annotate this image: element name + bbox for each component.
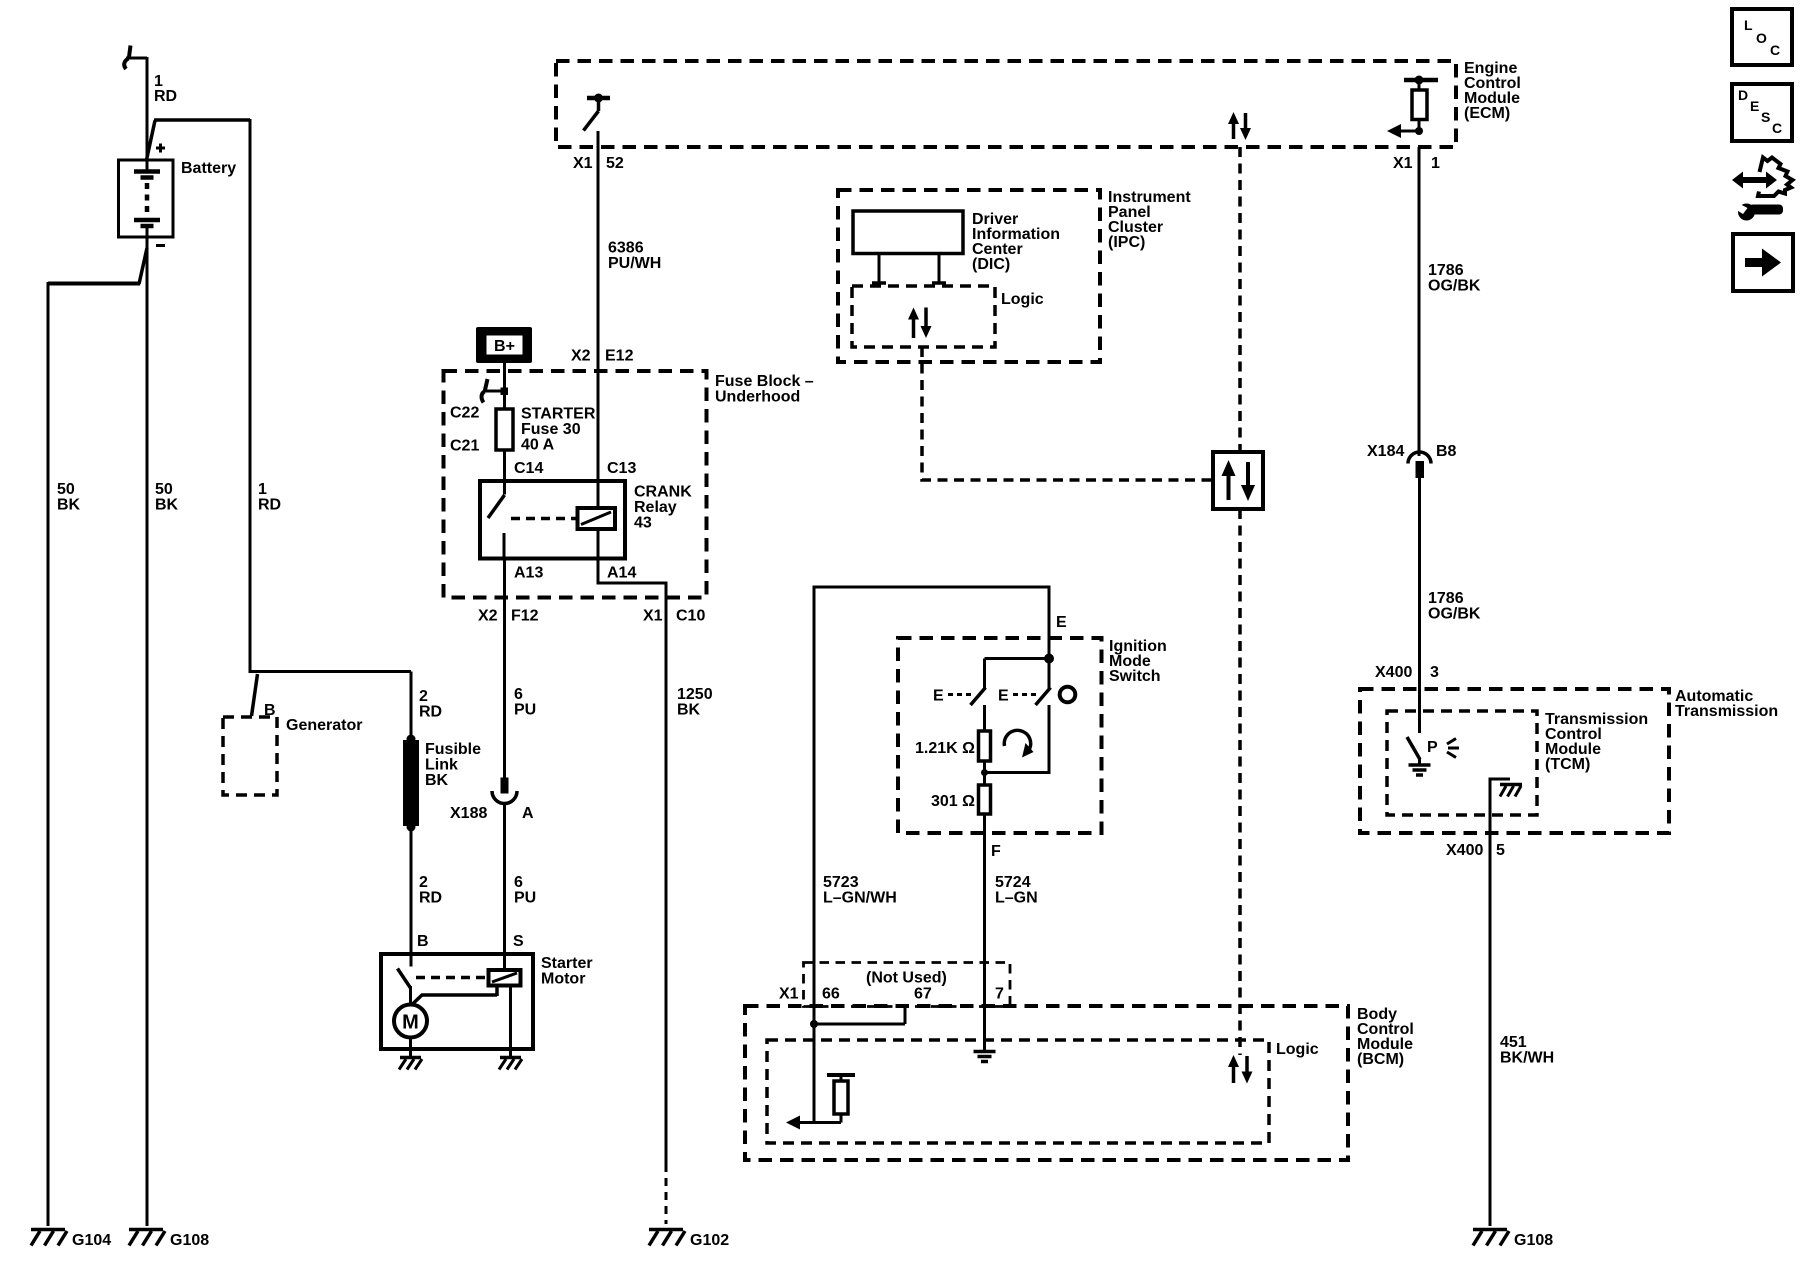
svg-text:L–GN: L–GN <box>995 890 1038 907</box>
svg-text:E: E <box>998 688 1009 705</box>
svg-text:Relay: Relay <box>634 499 677 516</box>
wire 5723 to BCM 66 <box>814 586 897 1025</box>
svg-text:F: F <box>991 843 1001 860</box>
wire E junction branch <box>985 659 1050 689</box>
svg-text:66: 66 <box>822 986 840 1003</box>
starter motor box <box>381 954 593 1049</box>
starter solenoid actuation dashed link <box>416 976 486 980</box>
svg-text:BK: BK <box>57 497 81 514</box>
svg-text:2: 2 <box>419 688 428 705</box>
svg-text:Fuse Block –: Fuse Block – <box>715 373 814 390</box>
svg-text:RD: RD <box>258 497 281 514</box>
wire horizontal to fusible link branch <box>250 672 411 717</box>
svg-text:5723: 5723 <box>823 874 859 891</box>
wire 5724 F to BCM 7 <box>985 814 1038 1050</box>
ground G108 left <box>129 1230 209 1250</box>
svg-text:5724: 5724 <box>995 874 1031 891</box>
fuse block underhood box <box>444 371 814 598</box>
starter solenoid coil <box>489 970 521 986</box>
ground starter motor <box>399 1058 422 1070</box>
connector X188 <box>450 778 534 823</box>
wire X1 52 to relay coil (6386 PU/WH) <box>571 131 661 508</box>
svg-text:C21: C21 <box>450 438 479 455</box>
node junction pin 66 <box>810 1020 818 1028</box>
svg-text:A14: A14 <box>607 565 636 582</box>
svg-text:P: P <box>1427 739 1438 756</box>
svg-text:D: D <box>1738 87 1748 103</box>
ignition mode switch box <box>898 638 1167 833</box>
starter motor M <box>394 1005 427 1038</box>
svg-text:X2: X2 <box>571 348 591 365</box>
svg-text:E12: E12 <box>605 348 634 365</box>
svg-text:2: 2 <box>419 874 428 891</box>
BCM logic data arrows <box>1228 1055 1253 1084</box>
crank relay switch blade <box>488 495 505 559</box>
crank relay coil <box>578 508 616 529</box>
crank relay box <box>480 481 692 559</box>
svg-text:C13: C13 <box>607 460 636 477</box>
svg-text:X184: X184 <box>1367 443 1404 460</box>
splice clip symbol top-left <box>124 46 147 70</box>
fusible link <box>403 735 481 832</box>
svg-text:451: 451 <box>1500 1034 1527 1051</box>
svg-text:RD: RD <box>419 890 442 907</box>
svg-text:1250: 1250 <box>677 686 713 703</box>
wire solenoid coil to ground <box>509 986 512 1057</box>
wire pin 66 into logic <box>813 1024 816 1123</box>
svg-text:X400: X400 <box>1375 664 1412 681</box>
crank relay actuation dashed link <box>511 517 577 521</box>
ECM box <box>556 60 1521 147</box>
ground G108 right <box>1473 1230 1553 1250</box>
svg-text:Transmission: Transmission <box>1675 703 1778 720</box>
wire A13 to starter S (6 PU) <box>478 559 539 779</box>
svg-text:X2: X2 <box>478 608 498 625</box>
svg-text:F12: F12 <box>511 608 539 625</box>
dashed logic wire DIC to gateway <box>922 347 1213 480</box>
svg-text:B8: B8 <box>1436 443 1457 460</box>
svg-text:Underhood: Underhood <box>715 389 800 406</box>
wire solenoid coil to motor feed <box>411 986 497 1006</box>
svg-text:Generator: Generator <box>286 717 362 734</box>
wire 2 RD lower to starter B <box>411 827 442 967</box>
IPC logic data arrows <box>908 308 932 339</box>
svg-text:CRANK: CRANK <box>634 484 692 501</box>
svg-text:S: S <box>513 933 524 950</box>
wire dashed tail to G102 <box>665 1164 668 1224</box>
ground TCM case <box>1500 785 1522 797</box>
wire 1786 OG/BK lower <box>1375 478 1481 733</box>
svg-text:BK: BK <box>677 702 701 719</box>
svg-text:G102: G102 <box>690 1232 729 1249</box>
ECM driver switch at X1 52 <box>573 94 624 173</box>
svg-text:1.21K Ω: 1.21K Ω <box>915 740 975 757</box>
svg-text:E: E <box>1750 98 1759 114</box>
svg-text:G108: G108 <box>170 1232 209 1249</box>
diagnostic icon <box>1732 158 1793 221</box>
svg-text:C10: C10 <box>676 608 705 625</box>
DIC display <box>853 211 1060 273</box>
wire 1 RD battery positive top <box>147 57 177 171</box>
svg-text:(ECM): (ECM) <box>1464 105 1510 122</box>
wire B+ to fuse C22 <box>503 363 506 409</box>
svg-text:43: 43 <box>634 515 652 532</box>
B+ terminal <box>476 327 532 363</box>
svg-text:52: 52 <box>606 155 624 172</box>
DIC legs <box>872 254 946 284</box>
svg-text:O: O <box>1756 30 1767 46</box>
svg-text:5: 5 <box>1496 842 1505 859</box>
svg-text:Battery: Battery <box>181 160 236 177</box>
svg-text:Motor: Motor <box>541 971 585 988</box>
svg-text:3: 3 <box>1430 664 1439 681</box>
wire switch2 to resistor junction <box>981 705 1049 785</box>
wire battery plus to 1 RD riser <box>147 120 251 160</box>
ignition wire E riser <box>814 586 1067 659</box>
dashed logic wire gateway to BCM <box>1238 509 1242 1055</box>
svg-text:L: L <box>1744 17 1753 33</box>
svg-text:X188: X188 <box>450 805 487 822</box>
svg-text:PU/WH: PU/WH <box>608 255 661 272</box>
svg-text:STARTER: STARTER <box>521 406 596 423</box>
generator box <box>223 702 362 795</box>
svg-text:Fusible: Fusible <box>425 741 481 758</box>
svg-text:X1: X1 <box>1393 155 1413 172</box>
svg-text:Logic: Logic <box>1276 1041 1319 1058</box>
svg-text:E: E <box>933 688 944 705</box>
ground starter solenoid <box>499 1058 522 1070</box>
svg-text:E: E <box>1056 614 1067 631</box>
svg-text:L–GN/WH: L–GN/WH <box>823 890 897 907</box>
automatic transmission box <box>1360 688 1778 833</box>
wire 50 BK second (battery minus) <box>147 228 179 1226</box>
ECM output node arrow <box>1387 124 1440 172</box>
ground G104 <box>31 1230 111 1250</box>
svg-text:X1: X1 <box>643 608 663 625</box>
wire battery minus jog <box>48 248 147 284</box>
battery B <box>119 144 237 248</box>
svg-text:PU: PU <box>514 890 536 907</box>
wire motor to ground <box>409 1038 412 1057</box>
svg-text:Starter: Starter <box>541 955 593 972</box>
wire X188 to starter S <box>505 804 537 971</box>
svg-text:C: C <box>1770 42 1780 58</box>
BCM box <box>745 1006 1414 1160</box>
svg-text:40 A: 40 A <box>521 437 555 454</box>
svg-text:BK: BK <box>155 497 179 514</box>
svg-text:OG/BK: OG/BK <box>1428 606 1481 623</box>
svg-text:6386: 6386 <box>608 240 644 257</box>
connector X184 <box>1367 443 1457 478</box>
IPC logic box <box>852 286 1044 347</box>
svg-text:BK/WH: BK/WH <box>1500 1050 1554 1067</box>
svg-text:6: 6 <box>514 686 523 703</box>
DESC legend box <box>1732 84 1792 141</box>
svg-text:1786: 1786 <box>1428 262 1464 279</box>
BCM logic box <box>767 1040 1319 1143</box>
svg-text:50: 50 <box>155 481 173 498</box>
svg-text:S: S <box>1761 109 1770 125</box>
ground TCM park switch <box>1409 765 1431 775</box>
svg-text:Logic: Logic <box>1001 291 1044 308</box>
svg-text:G108: G108 <box>1514 1232 1553 1249</box>
svg-text:(TCM): (TCM) <box>1545 756 1590 773</box>
LOC legend box <box>1732 9 1792 65</box>
splice clip at C22 <box>482 379 508 403</box>
svg-text:301 Ω: 301 Ω <box>931 793 975 810</box>
svg-text:C22: C22 <box>450 405 479 422</box>
park lamp P <box>1427 739 1459 758</box>
BCM output arrow <box>786 1116 841 1130</box>
BCM pull-up resistor <box>827 1075 855 1123</box>
wire 451 BK/WH <box>1446 826 1554 1226</box>
svg-text:C14: C14 <box>514 460 543 477</box>
wire 50 BK left <box>48 282 81 1226</box>
GO legend box <box>1733 234 1793 291</box>
svg-text:OG/BK: OG/BK <box>1428 278 1481 295</box>
TCM park switch <box>1407 737 1420 764</box>
starter solenoid switch blade <box>398 969 411 1007</box>
svg-text:X1: X1 <box>573 155 593 172</box>
svg-text:(BCM): (BCM) <box>1357 1051 1404 1068</box>
node E junction <box>1044 654 1054 664</box>
svg-text:A: A <box>522 805 534 822</box>
svg-text:X400: X400 <box>1446 842 1483 859</box>
wire 1 RD riser to generator <box>250 119 281 673</box>
ignition switch 1 <box>933 688 986 706</box>
svg-text:X1: X1 <box>779 986 799 1003</box>
svg-text:PU: PU <box>514 702 536 719</box>
svg-text:67: 67 <box>914 986 932 1003</box>
svg-text:6: 6 <box>514 874 523 891</box>
ground G102 <box>649 1230 729 1250</box>
wire 2 RD upper <box>411 672 442 739</box>
svg-text:50: 50 <box>57 481 75 498</box>
ECM logic data arrows <box>1228 112 1251 140</box>
wire 1786 OG/BK upper <box>1419 147 1481 456</box>
svg-text:(IPC): (IPC) <box>1108 234 1145 251</box>
IPC box <box>838 189 1191 362</box>
svg-text:B+: B+ <box>494 338 515 355</box>
ground BCM pin 7 <box>974 1052 996 1062</box>
svg-text:Fuse 30: Fuse 30 <box>521 421 581 438</box>
svg-text:(Not Used): (Not Used) <box>866 970 947 987</box>
svg-text:A13: A13 <box>514 565 543 582</box>
svg-text:Link: Link <box>425 757 458 774</box>
fuse STARTER 40A <box>450 405 596 455</box>
svg-text:G104: G104 <box>72 1232 111 1249</box>
wire stub to pin 67 <box>814 1006 905 1024</box>
svg-text:(DIC): (DIC) <box>972 256 1010 273</box>
svg-text:B: B <box>417 933 429 950</box>
dashed logic wire ECM to gateway <box>1238 147 1242 452</box>
svg-text:1: 1 <box>1431 155 1440 172</box>
wire A14 to X1 C10 (1250 BK) <box>514 529 713 1164</box>
wire fuse to crank relay C14 <box>505 450 544 495</box>
svg-text:7: 7 <box>995 986 1004 1003</box>
ignition switch 2 <box>998 659 1075 706</box>
svg-text:M: M <box>402 1012 419 1034</box>
resistor 301 <box>931 785 991 814</box>
svg-text:RD: RD <box>154 88 177 105</box>
BCM X1 connector pin box <box>779 963 1010 1007</box>
svg-text:Switch: Switch <box>1109 668 1161 685</box>
svg-text:BK: BK <box>425 772 449 789</box>
TCM case ground wire <box>1490 779 1510 826</box>
ECM output driver resistor <box>1404 76 1438 132</box>
svg-text:C: C <box>1772 120 1782 136</box>
svg-text:1: 1 <box>258 481 267 498</box>
svg-text:1786: 1786 <box>1428 590 1464 607</box>
svg-text:B: B <box>264 702 276 719</box>
gateway data box <box>1213 452 1263 509</box>
TCM box <box>1387 711 1648 815</box>
resistor 1.21K <box>915 705 991 761</box>
rotation arrow <box>1004 730 1033 757</box>
svg-text:RD: RD <box>419 704 442 721</box>
